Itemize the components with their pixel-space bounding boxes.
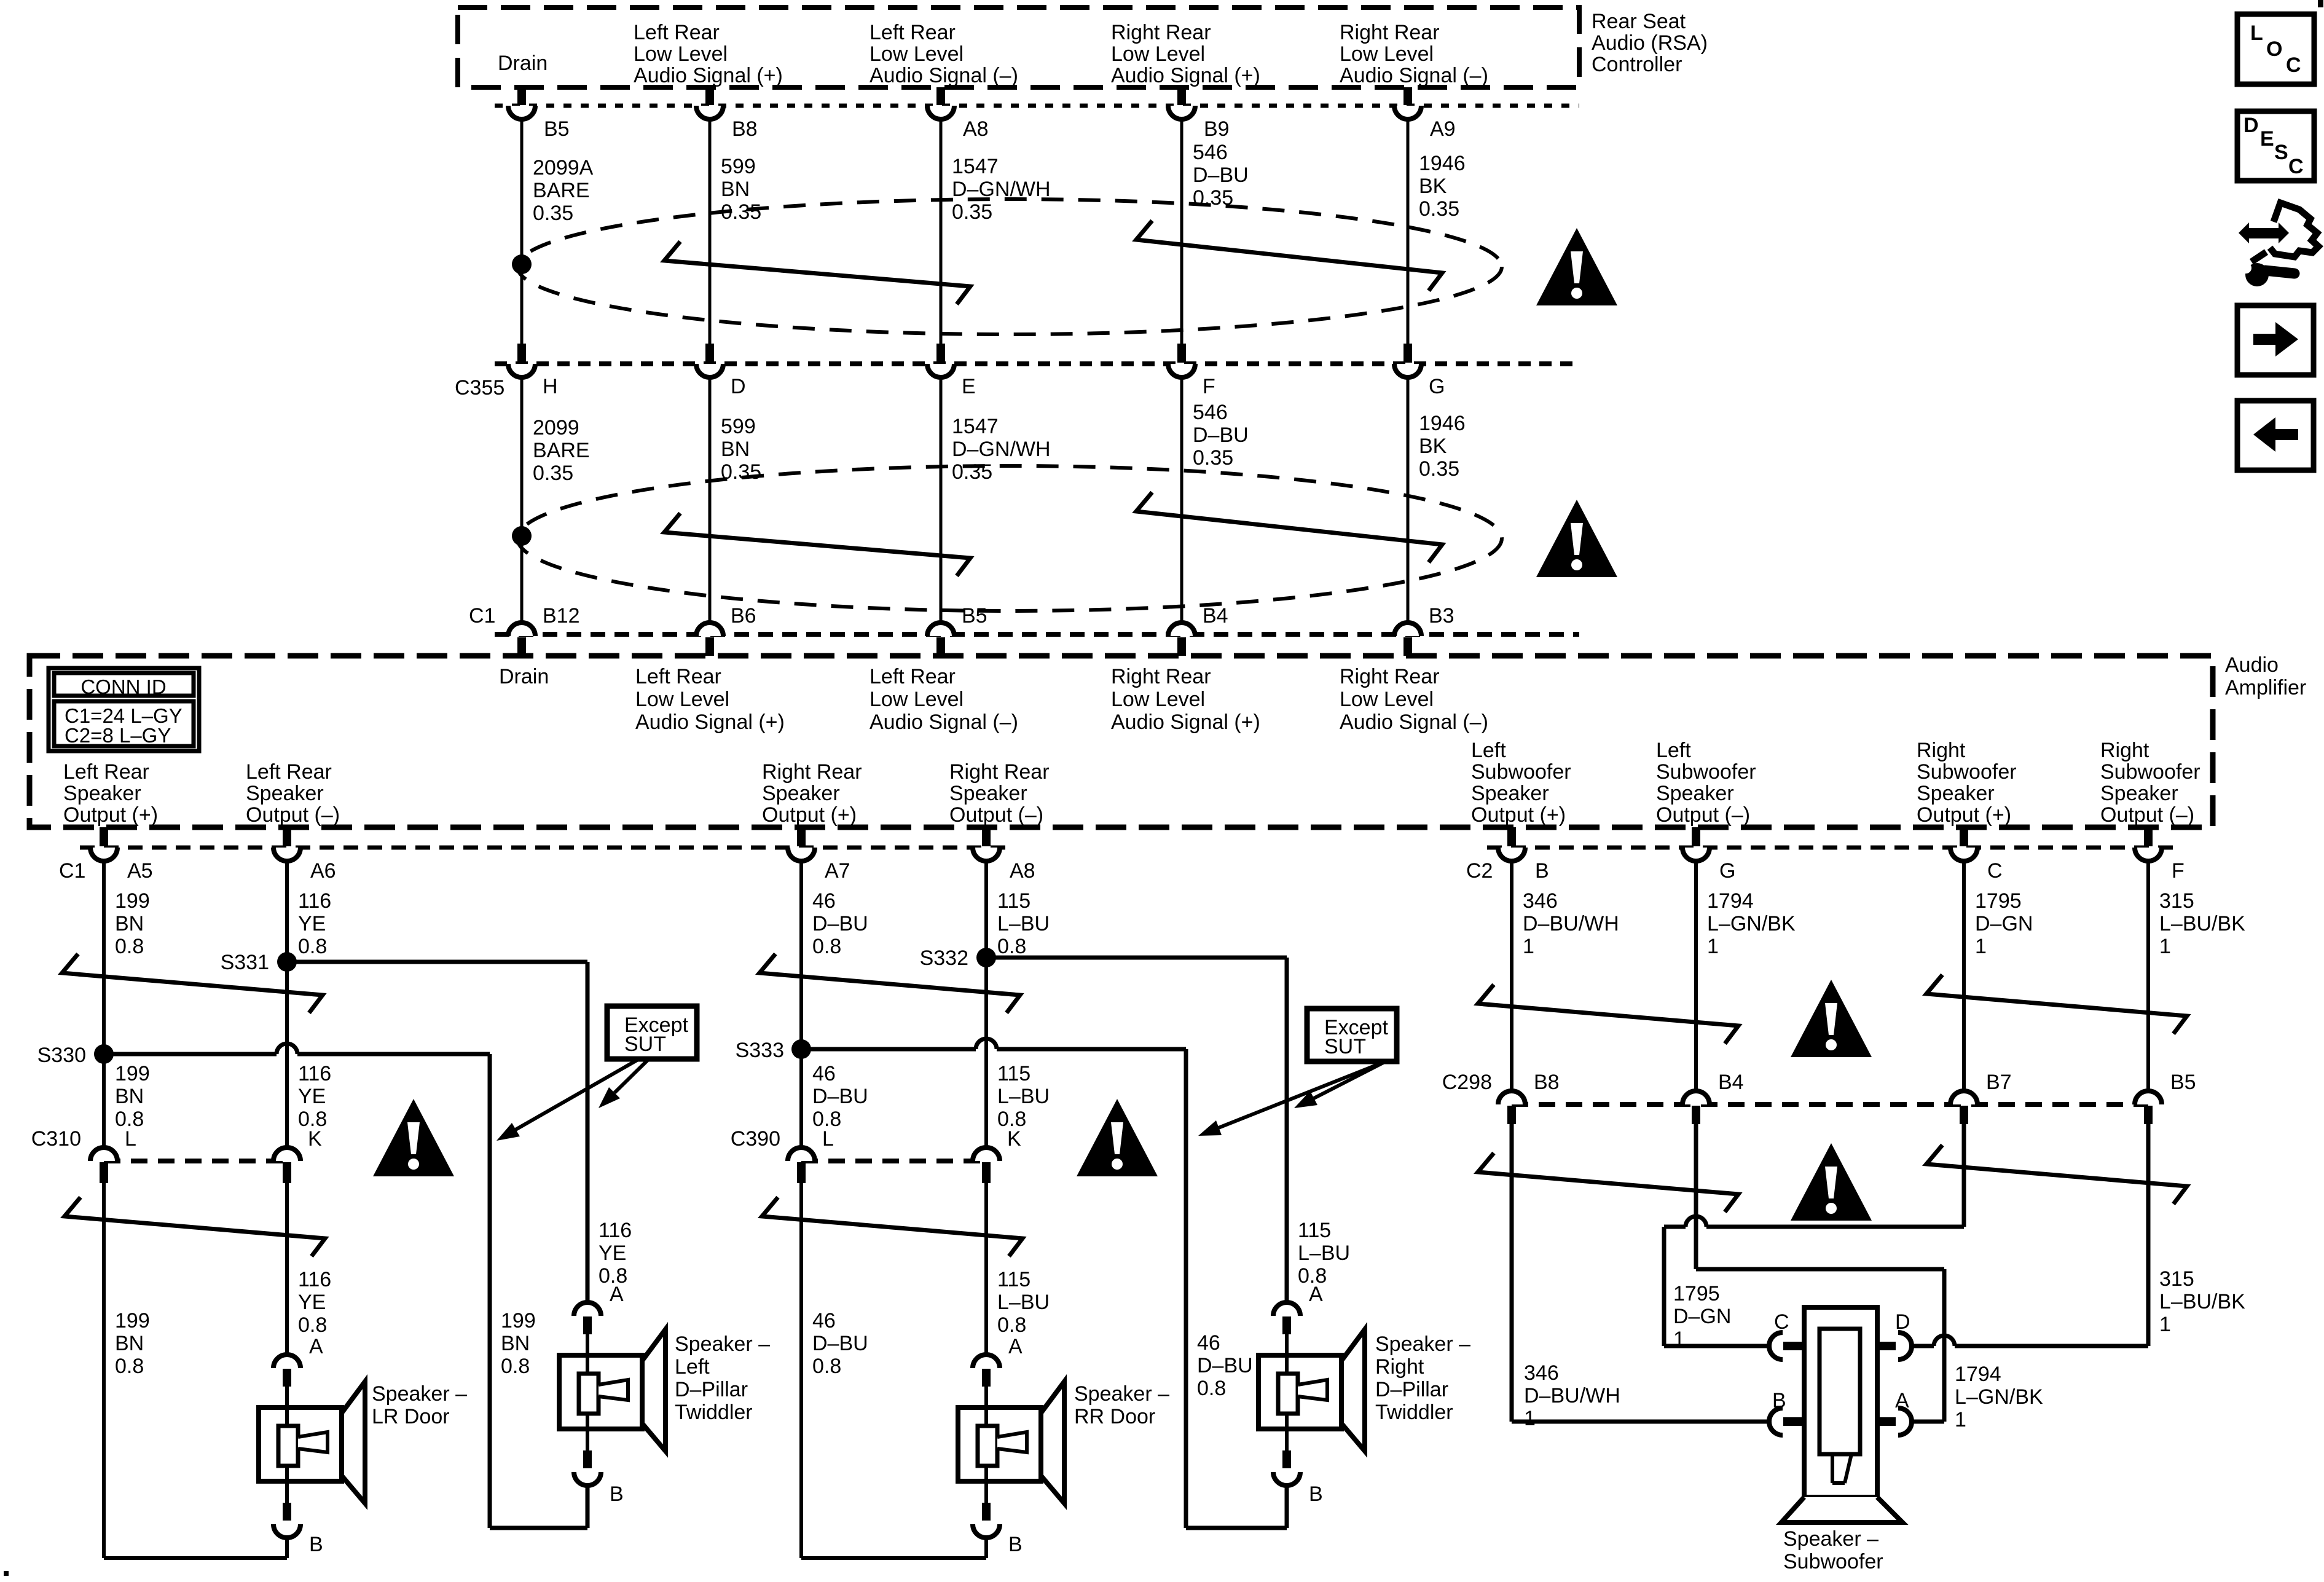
svg-text:Twiddler: Twiddler: [675, 1401, 753, 1424]
adjust/repair icon: double arrow: [2239, 222, 2289, 243]
svg-text:115: 115: [997, 1268, 1030, 1291]
C298 pin B5 cup and stub: [2135, 1091, 2162, 1124]
svg-text:2099: 2099: [533, 416, 579, 439]
svg-text:A7: A7: [825, 859, 850, 883]
label: RSA Left Rear Audio Signal (–): [870, 21, 1018, 87]
svg-text:0.35: 0.35: [1419, 457, 1459, 481]
option arrow (middle, above C390): [760, 954, 1020, 1013]
svg-text:B: B: [1772, 1389, 1786, 1412]
splice S333: [791, 1039, 811, 1059]
C298 pin B7 cup and stub: [1950, 1091, 1977, 1124]
wire 199 BN below C310 L to LR door speaker B: [104, 1183, 287, 1558]
C390 pin K cup and stub: [973, 1147, 1000, 1183]
pin label A5: [127, 859, 153, 883]
label Speaker - Right D-Pillar Twiddler: [1375, 1332, 1470, 1424]
label C1 (amp input row): [469, 604, 495, 628]
label: Audio Amplifier: [2225, 653, 2306, 699]
svg-text:0.8: 0.8: [812, 1355, 841, 1378]
connector C390 dashed line: [801, 1159, 986, 1163]
svg-text:Output (–): Output (–): [246, 803, 340, 827]
pin label L (C310): [125, 1127, 136, 1151]
label Speaker - RR Door: [1074, 1382, 1169, 1428]
svg-text:46: 46: [812, 1309, 836, 1332]
wire 599 BN from RSA B8 to C355: [709, 119, 712, 344]
svg-text:B5: B5: [2170, 1071, 2196, 1094]
wire label 116 YE 0.8 (below A6): [298, 889, 331, 958]
splice dot on drain wire (lower ellipse): [512, 526, 532, 546]
svg-text:C: C: [1774, 1310, 1789, 1334]
pin label C (subwoofer): [1774, 1310, 1789, 1334]
twisted-leads arrow (lower left): [664, 513, 970, 576]
svg-text:0.8: 0.8: [115, 935, 144, 958]
wire label 1547 D–GN/WH 0.35: [952, 155, 1051, 224]
svg-text:D–GN/WH: D–GN/WH: [952, 178, 1051, 201]
svg-text:H: H: [543, 375, 558, 398]
svg-text:199: 199: [501, 1309, 536, 1332]
svg-text:Low Level: Low Level: [634, 42, 728, 66]
svg-text:1: 1: [1955, 1408, 1966, 1431]
svg-text:Low Level: Low Level: [1111, 42, 1205, 66]
wire 1795 D-GN from C2 C to C298 B7: [1962, 861, 1966, 1091]
wire label 599 BN 0.35: [721, 415, 761, 484]
svg-text:1: 1: [1523, 935, 1534, 958]
twisted-leads arrow (upper left): [664, 242, 970, 304]
svg-text:BARE: BARE: [533, 179, 590, 202]
label: RSA Right Rear Audio Signal (+): [1111, 21, 1260, 87]
svg-text:B8: B8: [732, 117, 758, 141]
label Speaker - Left D-Pillar Twiddler: [675, 1332, 770, 1424]
C355 pin E stub and cup: [927, 344, 954, 377]
pin label G: [1719, 859, 1735, 883]
wire 1547 D–GN/WH from RSA A8 to C355: [940, 119, 943, 344]
svg-text:Speaker: Speaker: [949, 782, 1027, 805]
svg-text:546: 546: [1193, 401, 1228, 424]
wire 546 D–BU from RSA B9 to C355: [1180, 119, 1184, 344]
svg-text:S: S: [2274, 141, 2288, 164]
label: C2=8 L-GY: [65, 724, 171, 747]
svg-text:Output (+): Output (+): [63, 803, 158, 827]
svg-text:YE: YE: [599, 1242, 626, 1265]
svg-text:L–BU: L–BU: [997, 1085, 1050, 1108]
svg-text:A: A: [309, 1335, 323, 1358]
svg-text:546: 546: [1193, 141, 1228, 164]
svg-text:46: 46: [812, 1062, 836, 1085]
svg-text:B4: B4: [1718, 1071, 1744, 1094]
svg-text:L–BU: L–BU: [997, 1291, 1050, 1314]
pin label D (subwoofer): [1895, 1310, 1910, 1334]
speaker body box (Speaker - Right D-Pillar Twiddler): [1258, 1355, 1341, 1429]
svg-text:BK: BK: [1419, 435, 1447, 458]
wire 115 L-BU below C390 K to RR door speaker A: [984, 1183, 988, 1355]
pin label E: [962, 375, 976, 398]
svg-text:SUT: SUT: [624, 1033, 666, 1056]
pin label B3: [1429, 604, 1454, 628]
svg-text:0.8: 0.8: [115, 1355, 144, 1378]
svg-text:BN: BN: [115, 1332, 144, 1355]
svg-text:Low Level: Low Level: [870, 688, 964, 711]
connector pin B of Speaker - RR Door: [973, 1503, 1000, 1538]
svg-text:B4: B4: [1203, 604, 1228, 628]
pin label H: [543, 375, 558, 398]
svg-text:Right Rear: Right Rear: [1340, 665, 1440, 688]
RSA pin A9 stub and cup: [1394, 87, 1421, 119]
svg-text:1795: 1795: [1975, 889, 2022, 913]
label: amp input Left Rear Audio Signal (–): [870, 665, 1018, 734]
svg-text:Low Level: Low Level: [870, 42, 964, 66]
wire label 546 D–BU 0.35: [1193, 401, 1249, 470]
pin label A (Speaker - RR Door): [1008, 1335, 1023, 1358]
svg-text:1: 1: [1673, 1328, 1685, 1351]
svg-text:D–BU: D–BU: [812, 912, 868, 935]
C310 pin K cup and stub: [273, 1147, 300, 1183]
splice S331 horizontal wire to left twiddler: [287, 962, 587, 1302]
wire label 115 L-BU 0.8 (to RR door A): [997, 1268, 1050, 1337]
svg-text:1: 1: [2159, 1313, 2171, 1336]
svg-text:Left Rear: Left Rear: [870, 665, 956, 688]
svg-text:D–BU: D–BU: [1197, 1354, 1253, 1377]
wire 115 L-BU from C1 A8 down to C390 K: [984, 861, 988, 1147]
wire label 116 YE 0.8 (to LR door A): [298, 1268, 331, 1337]
wire label 46 D-BU 0.8 (right twiddler branch): [1197, 1331, 1253, 1400]
splice dot on drain wire (upper ellipse): [512, 254, 532, 274]
subwoofer pedestal: [1781, 1497, 1902, 1522]
svg-text:Left Rear: Left Rear: [634, 21, 720, 44]
svg-text:LR Door: LR Door: [372, 1405, 450, 1428]
Except SUT arrow (left box to 199 BN wire): [497, 1059, 639, 1141]
DESC icon box: [2237, 111, 2314, 181]
label: amp input Left Rear Audio Signal (+): [635, 665, 785, 734]
LOC icon box: [2237, 14, 2314, 84]
svg-text:A8: A8: [1010, 859, 1035, 883]
DESC icon letters: [2244, 114, 2304, 178]
svg-text:L: L: [822, 1127, 834, 1151]
wire 1795 D-GN below C298 B7 to subwoofer C (hops over 1794): [1664, 1124, 1964, 1346]
svg-text:Low Level: Low Level: [1340, 42, 1434, 66]
pin label B (subwoofer): [1772, 1389, 1786, 1412]
RSA pin B9 stub and cup: [1168, 87, 1195, 119]
svg-text:0.35: 0.35: [533, 202, 573, 225]
svg-text:Speaker –: Speaker –: [1783, 1527, 1878, 1551]
svg-text:Speaker –: Speaker –: [372, 1382, 467, 1406]
splice S330: [94, 1044, 114, 1064]
wire label 116 YE 0.8 (left twiddler A): [599, 1219, 632, 1288]
subwoofer pin A stub and cup: [1877, 1408, 1912, 1435]
svg-text:Audio Signal (–): Audio Signal (–): [870, 710, 1018, 734]
svg-text:Output (+): Output (+): [762, 803, 857, 827]
svg-text:E: E: [962, 375, 976, 398]
label C355: [455, 376, 504, 399]
svg-text:B8: B8: [1534, 1071, 1560, 1094]
subwoofer pin D stub and cup: [1877, 1332, 1912, 1360]
label: amp output Right Output (+): [1917, 739, 2017, 827]
speaker body box (Speaker - Left D-Pillar Twiddler): [559, 1355, 642, 1429]
subwoofer voice coil: [1820, 1329, 1860, 1483]
svg-text:1946: 1946: [1419, 152, 1466, 175]
svg-text:0.8: 0.8: [997, 935, 1026, 958]
svg-text:Low Level: Low Level: [1111, 688, 1205, 711]
svg-text:0.35: 0.35: [952, 200, 992, 224]
back arrow: [2253, 417, 2298, 452]
twisted-leads ellipse (lower): [517, 466, 1502, 611]
amp output pin A6 stub and cup: [273, 827, 300, 861]
LOC icon letters: [2250, 22, 2301, 77]
svg-text:C2=8 L–GY: C2=8 L–GY: [65, 724, 171, 747]
svg-text:Left: Left: [1471, 739, 1506, 762]
forward arrow icon box: [2237, 305, 2314, 375]
svg-text:1: 1: [1975, 935, 1987, 958]
label: amp output Left Output (–): [1656, 739, 1756, 827]
wire through speaker (Speaker - Left D-Pillar Twiddler): [586, 1334, 589, 1450]
svg-text:L–BU: L–BU: [1298, 1242, 1350, 1265]
svg-text:Speaker: Speaker: [246, 782, 324, 805]
svg-text:Low Level: Low Level: [635, 688, 729, 711]
svg-text:Speaker: Speaker: [1471, 782, 1549, 805]
svg-text:A: A: [1895, 1389, 1909, 1412]
svg-text:Speaker –: Speaker –: [675, 1332, 770, 1356]
pin label B6: [731, 604, 756, 628]
pin label K (C390): [1007, 1127, 1021, 1151]
pin label B (Speaker - RR Door): [1008, 1533, 1023, 1556]
pin label B5: [962, 604, 987, 628]
svg-text:199: 199: [115, 1062, 150, 1085]
svg-text:0.8: 0.8: [298, 1313, 327, 1337]
svg-text:BN: BN: [501, 1332, 530, 1355]
RSA harness connector dotted line: [495, 104, 1579, 108]
label C298: [1442, 1071, 1492, 1094]
label C390: [731, 1127, 780, 1151]
svg-text:Right Rear: Right Rear: [762, 760, 862, 784]
svg-text:Left: Left: [1656, 739, 1691, 762]
wire label 346 D–BU/WH 1 (below B): [1523, 889, 1619, 958]
amp input pin B12 cup and stub: [508, 623, 535, 656]
pin label A7: [825, 859, 850, 883]
C355 pin F stub and cup: [1168, 344, 1195, 377]
amp output pin A7 stub and cup: [788, 827, 815, 861]
wire 315 L-BU/BK below C298 B5 to subwoofer D (hops over 1794): [1912, 1124, 2148, 1346]
svg-text:D–Pillar: D–Pillar: [1375, 1378, 1448, 1401]
svg-text:C1: C1: [59, 859, 85, 883]
svg-text:Speaker –: Speaker –: [1074, 1382, 1169, 1406]
svg-text:D–GN: D–GN: [1975, 912, 2033, 935]
svg-text:46: 46: [1197, 1331, 1220, 1355]
connector pin A of Speaker - RR Door: [973, 1355, 1000, 1387]
pin label L (C390): [822, 1127, 834, 1151]
svg-text:Audio: Audio: [2225, 653, 2279, 677]
svg-text:Audio Signal (+): Audio Signal (+): [635, 710, 785, 734]
wire label 1946 BK 0.35: [1419, 152, 1466, 221]
twisted-leads arrow (upper right): [1136, 221, 1442, 291]
RSA pin B8 stub and cup: [696, 87, 723, 119]
wire label 1794 L–GN/BK 1 (below G): [1707, 889, 1796, 958]
pin label A8: [963, 117, 989, 141]
svg-text:Output (–): Output (–): [1656, 803, 1750, 827]
svg-text:Speaker: Speaker: [1917, 782, 1995, 805]
svg-text:D: D: [2244, 114, 2259, 137]
pin label A (Speaker - LR Door): [309, 1335, 323, 1358]
speaker horn (Speaker - Left D-Pillar Twiddler): [642, 1329, 665, 1451]
option arrow (middle, below C390): [762, 1197, 1023, 1256]
svg-text:Left Rear: Left Rear: [246, 760, 332, 784]
svg-text:O: O: [2266, 37, 2282, 61]
wire label 199 BN 0.8 (twiddler branch): [501, 1309, 536, 1378]
label: CONN ID: [80, 675, 166, 698]
pin label B5 (C298): [2170, 1071, 2196, 1094]
Except SUT arrow (left box to 116 YE wire): [599, 1059, 649, 1108]
page mark (bottom left): [4, 1571, 9, 1576]
C298 pin B4 cup and stub: [1682, 1091, 1710, 1124]
option arrow (subwoofer upper right): [1926, 975, 2187, 1034]
svg-text:Twiddler: Twiddler: [1375, 1401, 1453, 1424]
wire 46 D-BU below C390 L to RR door speaker B: [801, 1183, 986, 1558]
label Except SUT (left): [624, 1013, 688, 1056]
svg-text:Controller: Controller: [1592, 53, 1682, 76]
svg-text:L–BU/BK: L–BU/BK: [2159, 912, 2245, 935]
svg-text:Audio Signal (–): Audio Signal (–): [1340, 64, 1488, 87]
amp input pin B5 cup and stub: [927, 623, 954, 656]
label: C1=24 L-GY: [65, 704, 183, 727]
pin label A9: [1430, 117, 1456, 141]
svg-text:Output (–): Output (–): [2100, 803, 2194, 827]
svg-text:Right: Right: [2100, 739, 2149, 762]
svg-text:D–BU: D–BU: [812, 1332, 868, 1355]
svg-text:L: L: [2250, 22, 2263, 45]
Except SUT box (left): [607, 1006, 697, 1059]
option arrow (left, below C310): [65, 1197, 325, 1256]
RSA pin A8 stub and cup: [927, 87, 954, 119]
svg-text:0.35: 0.35: [533, 462, 573, 485]
svg-text:Audio Signal (+): Audio Signal (+): [1111, 64, 1260, 87]
svg-text:BK: BK: [1419, 175, 1447, 198]
svg-text:199: 199: [115, 1309, 150, 1332]
svg-text:B5: B5: [544, 117, 570, 141]
svg-text:Drain: Drain: [499, 665, 549, 688]
svg-text:46: 46: [812, 889, 836, 913]
pin label B8: [732, 117, 758, 141]
pin label B12: [543, 604, 580, 628]
svg-text:D–GN/WH: D–GN/WH: [952, 438, 1051, 461]
label C1 (amp output row): [59, 859, 85, 883]
wire 1794 L-GN/BK below C298 B4 to subwoofer A: [1696, 1124, 1944, 1422]
svg-text:Speaker: Speaker: [2100, 782, 2178, 805]
label: amp input Right Rear Audio Signal (+): [1111, 665, 1260, 734]
svg-text:S330: S330: [37, 1044, 86, 1067]
wire label 115 L–BU 0.8 (above C310/C390): [997, 1062, 1050, 1131]
splice S333 horizontal wire (hops over 115 L-BU): [801, 1039, 1287, 1528]
svg-text:Low Level: Low Level: [1340, 688, 1434, 711]
svg-text:0.8: 0.8: [501, 1355, 530, 1378]
svg-text:K: K: [1007, 1127, 1021, 1151]
svg-text:Subwoofer: Subwoofer: [1783, 1550, 1883, 1573]
svg-text:C1: C1: [469, 604, 495, 628]
connector pin B of Speaker - LR Door: [273, 1503, 300, 1538]
adjust/repair icon: part outline: [2251, 203, 2318, 262]
wire label 115 L–BU 0.8 (below A8): [997, 889, 1050, 958]
label: Rear Seat Audio (RSA) Controller: [1592, 10, 1708, 76]
svg-text:0.35: 0.35: [1419, 197, 1459, 221]
label S333: [736, 1039, 784, 1062]
wire label 1946 BK 0.35: [1419, 412, 1466, 481]
svg-text:Audio Signal (–): Audio Signal (–): [870, 64, 1018, 87]
svg-text:Left Rear: Left Rear: [63, 760, 149, 784]
wire label 1795 D-GN 1 (to subwoofer C): [1673, 1282, 1731, 1351]
pin label D: [731, 375, 746, 398]
label C310: [31, 1127, 81, 1151]
twisted-leads arrow (lower right): [1136, 492, 1442, 562]
wire through speaker (Speaker - LR Door): [285, 1387, 289, 1503]
svg-text:Audio Signal (–): Audio Signal (–): [1340, 710, 1488, 734]
wire label 2099 BARE 0.35: [533, 416, 590, 485]
wire label 199 BN 0.8 (below A5): [115, 889, 150, 958]
wire label 2099A BARE 0.35: [533, 156, 594, 225]
splice S332: [976, 948, 996, 967]
warning triangle (subwoofer upper): [1791, 980, 1872, 1057]
wire 1946 BK from C355 to C1: [1407, 377, 1410, 623]
svg-text:2099A: 2099A: [533, 156, 594, 179]
speaker voice coil (Speaker - LR Door): [278, 1426, 328, 1466]
svg-text:Subwoofer: Subwoofer: [2100, 760, 2200, 784]
Audio Amplifier box: [29, 656, 2213, 827]
svg-text:B3: B3: [1429, 604, 1454, 628]
svg-text:D–BU: D–BU: [1193, 163, 1249, 187]
speaker horn (Speaker - RR Door): [1041, 1382, 1064, 1503]
warning triangle (lower): [1536, 500, 1617, 577]
svg-text:A: A: [1309, 1283, 1323, 1306]
wire label 315 L–BU/BK 1 (below F): [2159, 889, 2245, 958]
svg-text:K: K: [308, 1127, 322, 1151]
twisted-leads ellipse (upper): [517, 199, 1502, 334]
pin label A (Speaker - Right D-Pillar Twiddler): [1309, 1283, 1323, 1306]
svg-text:599: 599: [721, 415, 756, 438]
wire 116 YE from C1 A6 down to C310 K: [285, 861, 289, 1147]
svg-text:CONN ID: CONN ID: [80, 675, 166, 698]
wire label 199 BN 0.8 (above C310/C390): [115, 1062, 150, 1131]
label: amp output Right Output (–): [2100, 739, 2200, 827]
svg-text:RR Door: RR Door: [1074, 1405, 1155, 1428]
svg-text:Left Rear: Left Rear: [870, 21, 956, 44]
svg-text:Left Rear: Left Rear: [635, 665, 721, 688]
wire 2099A BARE from RSA B5 to C355: [520, 119, 524, 344]
pin label B4 (C298): [1718, 1071, 1744, 1094]
wire 116 YE below C310 K to LR door speaker A: [285, 1183, 289, 1355]
svg-text:0.8: 0.8: [298, 935, 327, 958]
C310 pin L cup and stub: [90, 1147, 117, 1183]
svg-text:1946: 1946: [1419, 412, 1466, 435]
label S331: [221, 951, 269, 974]
pin label G: [1429, 375, 1445, 398]
amp input pin B4 cup and stub: [1168, 623, 1195, 656]
svg-text:L–BU: L–BU: [997, 912, 1050, 935]
label: amp output Right Rear Output (+): [762, 760, 862, 827]
label Speaker - Subwoofer: [1783, 1527, 1883, 1573]
svg-text:D–BU/WH: D–BU/WH: [1524, 1384, 1620, 1407]
pin label K (C310): [308, 1127, 322, 1151]
svg-text:0.8: 0.8: [997, 1313, 1026, 1337]
svg-text:E: E: [2260, 127, 2274, 151]
warning triangle (middle lower): [1077, 1099, 1158, 1176]
svg-text:L–GN/BK: L–GN/BK: [1707, 912, 1796, 935]
label: amp input Right Rear Audio Signal (–): [1340, 665, 1488, 734]
svg-text:115: 115: [997, 889, 1030, 913]
wire 199 BN from C1 A5 down to C310 L: [102, 861, 106, 1147]
svg-text:L–GN/BK: L–GN/BK: [1955, 1385, 2043, 1409]
svg-text:Speaker: Speaker: [762, 782, 840, 805]
pin label C: [1987, 859, 2003, 883]
wire label 46 D–BU 0.8 (above C310/C390): [812, 1062, 868, 1131]
svg-text:Speaker –: Speaker –: [1375, 1332, 1470, 1356]
wire label 1794 L-GN/BK 1 (to subwoofer A): [1955, 1363, 2043, 1431]
warning triangle (left lower): [373, 1099, 454, 1176]
wire 599 BN from C355 to C1: [709, 377, 712, 623]
